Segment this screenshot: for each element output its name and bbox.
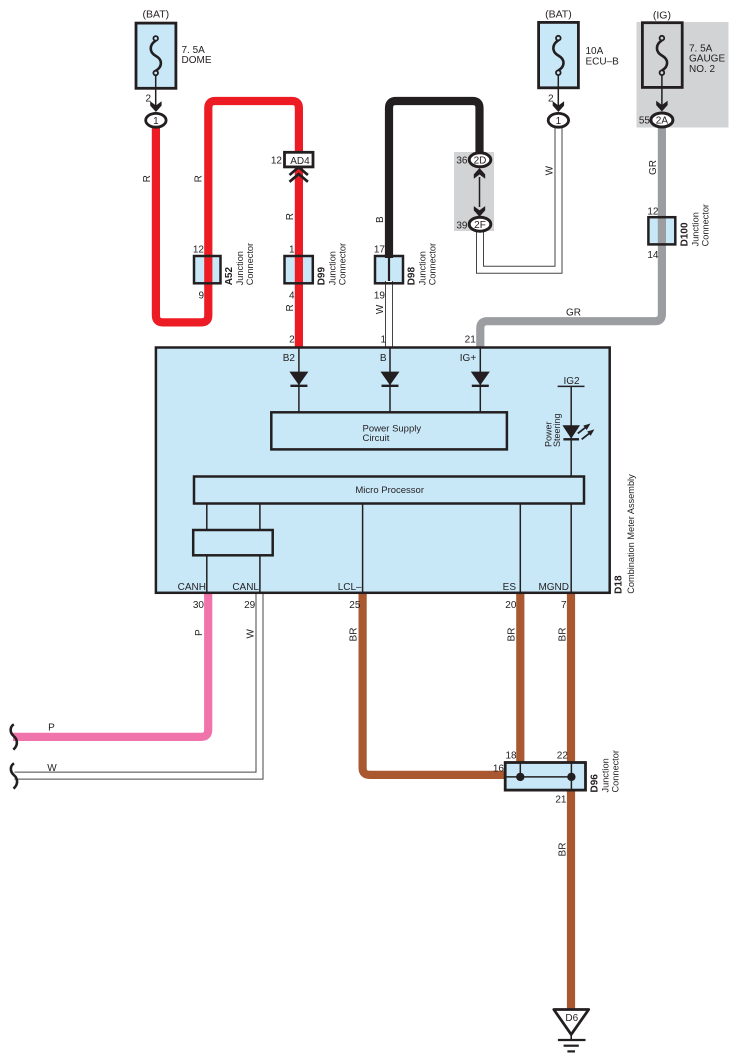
svg-text:Connector: Connector — [428, 243, 438, 285]
junction connector D98 fill — [375, 256, 403, 283]
svg-text:AD4: AD4 — [290, 156, 310, 167]
ES internal line — [519, 504, 521, 594]
LCL- internal line — [362, 504, 364, 594]
svg-text:W: W — [375, 304, 386, 314]
svg-text:DOME: DOME — [182, 55, 212, 66]
svg-text:R: R — [194, 175, 205, 182]
svg-text:Connector: Connector — [245, 243, 255, 285]
svg-text:7: 7 — [561, 600, 567, 611]
svg-text:36: 36 — [456, 156, 468, 167]
micro processor box — [194, 477, 584, 504]
svg-text:W: W — [545, 165, 556, 175]
svg-text:4: 4 — [289, 291, 295, 302]
svg-text:2F: 2F — [474, 220, 486, 231]
pin 2 arrow ECU-B — [553, 101, 564, 112]
junction connector D99 border — [285, 256, 313, 283]
wire white W D98 to meter pin1 — [385, 281, 393, 348]
break symbol white wire — [11, 763, 17, 788]
wire white W ECU-B to 2F — [480, 124, 559, 270]
svg-text:Connector: Connector — [610, 750, 620, 792]
svg-text:Junction: Junction — [418, 251, 428, 285]
svg-text:(BAT): (BAT) — [142, 9, 169, 21]
wire white W CANL — [15, 591, 260, 776]
power supply circuit box — [271, 412, 507, 449]
pin 1 oval DOME — [146, 113, 166, 127]
connector AD4 — [285, 152, 314, 167]
svg-text:2: 2 — [145, 94, 151, 105]
break symbol pink wire — [11, 724, 17, 749]
svg-text:12: 12 — [193, 245, 205, 256]
svg-text:BR: BR — [557, 843, 568, 857]
svg-text:Junction: Junction — [600, 758, 610, 792]
svg-text:(IG): (IG) — [653, 9, 671, 21]
svg-text:BR: BR — [557, 628, 568, 642]
svg-text:BR: BR — [506, 628, 517, 642]
junction connector D100 border — [648, 217, 675, 244]
connector 2F oval — [469, 217, 491, 231]
svg-text:R: R — [285, 213, 296, 220]
junction connector D96 — [505, 763, 585, 791]
pin 1 oval ECU-B — [548, 113, 568, 127]
svg-text:ECU–B: ECU–B — [586, 56, 620, 67]
2D-2F mating arrows — [474, 168, 485, 217]
wire pink P CANH — [13, 591, 208, 737]
svg-text:GR: GR — [648, 160, 659, 175]
svg-text:1: 1 — [556, 116, 562, 127]
svg-text:P: P — [48, 722, 55, 733]
connector 2D oval — [469, 153, 491, 167]
junction connector D99 fill — [285, 256, 313, 283]
svg-text:Junction: Junction — [327, 251, 337, 285]
svg-text:21: 21 — [465, 335, 477, 346]
svg-text:B: B — [380, 353, 387, 364]
fuse GAUGE NO.2 7.5A — [642, 23, 682, 106]
svg-text:12: 12 — [647, 207, 659, 218]
svg-text:2D: 2D — [474, 156, 487, 167]
svg-text:Micro Processor: Micro Processor — [355, 485, 424, 496]
wire brown BR LCL- — [363, 591, 507, 775]
svg-text:BR: BR — [349, 628, 360, 642]
ground D6 — [554, 1010, 589, 1052]
svg-text:39: 39 — [456, 221, 468, 232]
svg-text:1: 1 — [380, 335, 386, 346]
wire brown BR ES — [516, 591, 524, 764]
svg-text:B: B — [375, 216, 386, 223]
svg-text:16: 16 — [493, 764, 505, 775]
svg-text:Junction: Junction — [690, 212, 700, 246]
CAN termination box — [193, 504, 273, 594]
svg-text:B2: B2 — [283, 353, 296, 364]
junction connector A52 fill — [194, 256, 221, 283]
fuse DOME 7.5A — [136, 23, 176, 107]
wire black B — [389, 101, 480, 258]
pin 55 arrow GAUGE — [656, 101, 667, 112]
svg-text:D98: D98 — [407, 267, 418, 286]
svg-text:1: 1 — [153, 116, 159, 127]
svg-text:IG+: IG+ — [460, 353, 477, 364]
svg-text:D100: D100 — [679, 222, 690, 246]
svg-text:Steering: Steering — [552, 413, 562, 447]
svg-text:A52: A52 — [224, 267, 235, 286]
wire gray GR — [480, 125, 662, 348]
svg-text:21: 21 — [555, 795, 567, 806]
pin 2 arrow DOME — [150, 101, 161, 112]
fuse ECU-B 10A — [539, 22, 579, 107]
svg-text:55: 55 — [639, 116, 651, 127]
svg-text:(BAT): (BAT) — [545, 9, 572, 21]
svg-text:14: 14 — [647, 250, 659, 261]
diode at IG+ — [471, 347, 490, 412]
wire brown BR MGND upper — [567, 591, 575, 764]
svg-text:GR: GR — [566, 308, 581, 319]
svg-text:Combination Meter Assembly: Combination Meter Assembly — [626, 474, 636, 594]
svg-text:17: 17 — [374, 245, 386, 256]
svg-text:W: W — [246, 629, 257, 639]
svg-text:W: W — [47, 763, 57, 774]
svg-text:P: P — [194, 629, 205, 636]
svg-text:18: 18 — [505, 751, 517, 762]
svg-text:MGND: MGND — [538, 582, 569, 593]
IG2 node and LED power steering — [558, 386, 595, 593]
svg-text:Circuit: Circuit — [363, 433, 390, 444]
svg-text:ES: ES — [503, 582, 517, 593]
svg-text:D96: D96 — [590, 774, 601, 793]
svg-text:22: 22 — [557, 751, 569, 762]
svg-text:D99: D99 — [316, 267, 327, 286]
svg-text:Junction: Junction — [235, 251, 245, 285]
gray background behind 2D/2F connector pair — [454, 152, 494, 231]
svg-text:D6: D6 — [565, 1013, 578, 1024]
junction connector A52 border — [194, 256, 221, 283]
svg-text:R: R — [142, 175, 153, 182]
diode at B — [381, 347, 400, 412]
svg-text:Connector: Connector — [337, 243, 347, 285]
svg-text:29: 29 — [244, 600, 256, 611]
svg-text:CANL: CANL — [232, 582, 259, 593]
svg-text:19: 19 — [374, 291, 386, 302]
svg-text:2: 2 — [289, 335, 295, 346]
svg-text:2A: 2A — [656, 116, 669, 127]
AD4 chevron — [290, 167, 308, 182]
svg-text:R: R — [285, 304, 296, 311]
wire red DOME B2 — [156, 101, 299, 348]
combination meter assembly D18 box — [156, 348, 610, 593]
svg-text:CANH: CANH — [178, 582, 206, 593]
svg-text:LCL–: LCL– — [338, 582, 362, 593]
svg-text:12: 12 — [271, 156, 283, 167]
svg-text:1: 1 — [289, 245, 295, 256]
gray background behind IG gauge fuse — [637, 22, 729, 128]
junction connector D100 fill — [648, 217, 675, 244]
svg-text:Connector: Connector — [700, 204, 710, 246]
svg-text:25: 25 — [349, 600, 361, 611]
svg-text:IG2: IG2 — [563, 376, 580, 387]
junction connector D98 border — [375, 256, 403, 283]
pin 55 oval 2A — [651, 113, 673, 127]
wire brown BR ground — [567, 789, 575, 1011]
svg-text:20: 20 — [505, 600, 517, 611]
svg-text:2: 2 — [548, 94, 554, 105]
svg-text:D18: D18 — [614, 575, 625, 594]
diode at B2 — [289, 347, 308, 412]
svg-text:NO. 2: NO. 2 — [689, 64, 716, 75]
svg-text:30: 30 — [193, 600, 205, 611]
svg-text:9: 9 — [198, 291, 204, 302]
